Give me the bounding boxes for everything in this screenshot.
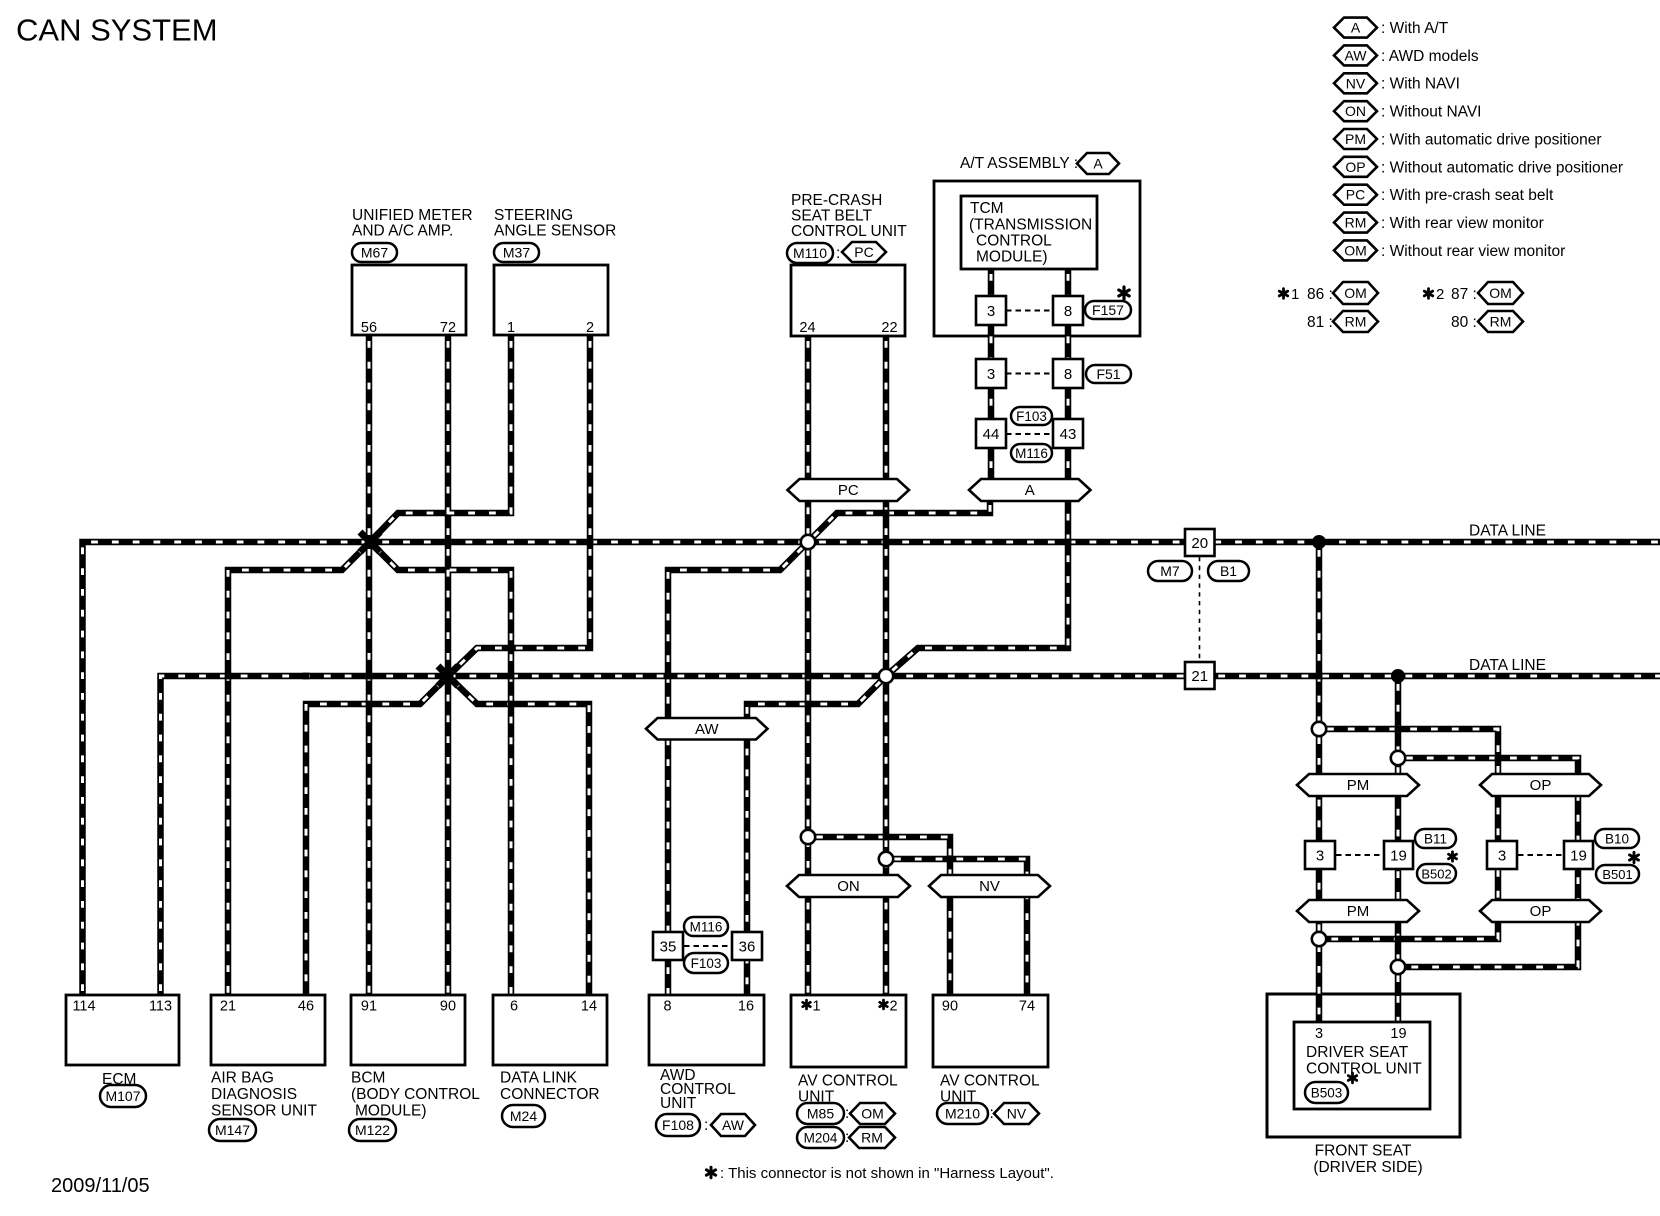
svg-text:BCM: BCM: [351, 1070, 385, 1087]
svg-text::: :: [704, 1117, 708, 1134]
svg-text:OM: OM: [1344, 242, 1367, 258]
svg-text:(BODY CONTROL: (BODY CONTROL: [351, 1086, 480, 1103]
svg-text:MODULE): MODULE): [355, 1103, 426, 1120]
svg-text:81 :: 81 :: [1307, 314, 1333, 331]
svg-text:DRIVER SEAT: DRIVER SEAT: [1306, 1044, 1409, 1061]
svg-text:UNIT: UNIT: [798, 1089, 835, 1106]
svg-text:RM: RM: [1490, 314, 1512, 330]
svg-text:NV: NV: [1007, 1106, 1027, 1122]
svg-text:1: 1: [813, 999, 821, 1015]
svg-text:14: 14: [581, 999, 597, 1015]
svg-text:B503: B503: [1311, 1086, 1343, 1101]
svg-text:DATA LINE: DATA LINE: [1469, 657, 1546, 674]
svg-text:OM: OM: [861, 1106, 884, 1122]
svg-text::: :: [990, 1105, 994, 1122]
svg-text:20: 20: [1191, 535, 1208, 552]
svg-text:2009/11/05: 2009/11/05: [51, 1175, 150, 1197]
svg-text:90: 90: [942, 999, 958, 1015]
svg-text:AW: AW: [695, 721, 719, 738]
svg-text:OM: OM: [1344, 285, 1367, 301]
svg-text:A/T ASSEMBLY :: A/T ASSEMBLY :: [960, 155, 1078, 172]
svg-text:24: 24: [799, 320, 815, 336]
svg-text:PC: PC: [838, 482, 859, 499]
svg-text:80 :: 80 :: [1451, 314, 1477, 331]
svg-text:NV: NV: [1346, 75, 1366, 91]
svg-text:OP: OP: [1345, 159, 1365, 175]
svg-text:B501: B501: [1602, 867, 1632, 882]
svg-text:19: 19: [1570, 847, 1587, 864]
svg-text:OP: OP: [1530, 903, 1552, 920]
svg-text:M122: M122: [355, 1122, 390, 1138]
svg-text:PM: PM: [1345, 131, 1366, 147]
svg-text:CONTROL UNIT: CONTROL UNIT: [791, 223, 907, 240]
svg-text:ECM: ECM: [102, 1071, 136, 1088]
svg-text:1: 1: [1291, 286, 1299, 303]
svg-text:PM: PM: [1347, 777, 1370, 794]
svg-text:21: 21: [220, 999, 236, 1015]
svg-text:3: 3: [987, 303, 995, 320]
svg-text:B11: B11: [1424, 832, 1447, 847]
svg-text:AND A/C AMP.: AND A/C AMP.: [352, 223, 453, 240]
svg-text:2: 2: [586, 320, 594, 336]
svg-text:M7: M7: [1160, 563, 1180, 579]
svg-text:F103: F103: [691, 956, 722, 971]
svg-text:DIAGNOSIS: DIAGNOSIS: [211, 1086, 297, 1103]
svg-text:M204: M204: [804, 1131, 838, 1146]
svg-text:: With pre-crash seat belt: : With pre-crash seat belt: [1381, 187, 1554, 204]
svg-text:114: 114: [72, 999, 95, 1015]
svg-text:: Without rear view monitor: : Without rear view monitor: [1381, 243, 1565, 260]
svg-text:21: 21: [1191, 668, 1208, 685]
svg-text:M37: M37: [503, 245, 530, 261]
svg-text:: With automatic drive positio: : With automatic drive positioner: [1381, 131, 1602, 148]
svg-text:16: 16: [738, 999, 754, 1015]
svg-text:CAN SYSTEM: CAN SYSTEM: [16, 13, 218, 48]
svg-text:19: 19: [1390, 847, 1407, 864]
svg-text::: :: [836, 245, 840, 262]
svg-text:F103: F103: [1016, 409, 1047, 424]
svg-text:2: 2: [890, 999, 898, 1015]
svg-text:A: A: [1025, 482, 1035, 499]
svg-text:AV CONTROL: AV CONTROL: [798, 1073, 898, 1090]
svg-text:B1: B1: [1220, 563, 1237, 579]
svg-text:90: 90: [440, 999, 456, 1015]
svg-text:ON: ON: [1345, 103, 1366, 119]
svg-text:(TRANSMISSION: (TRANSMISSION: [969, 217, 1092, 234]
svg-text:: With A/T: : With A/T: [1381, 20, 1449, 37]
svg-text:F51: F51: [1096, 366, 1120, 382]
svg-text:UNIFIED METER: UNIFIED METER: [352, 207, 473, 224]
svg-text:SENSOR UNIT: SENSOR UNIT: [211, 1103, 317, 1120]
svg-text:B10: B10: [1605, 832, 1629, 847]
svg-text:113: 113: [149, 999, 172, 1015]
svg-text:F157: F157: [1092, 302, 1124, 318]
svg-text:22: 22: [881, 320, 897, 336]
svg-text::: :: [845, 1105, 849, 1122]
svg-text:AW: AW: [1344, 47, 1367, 63]
svg-text:AIR BAG: AIR BAG: [211, 1070, 274, 1087]
svg-text:: Without NAVI: : Without NAVI: [1381, 104, 1482, 121]
svg-text::: :: [845, 1129, 849, 1146]
svg-text:8: 8: [663, 999, 671, 1015]
svg-text:CONTROL UNIT: CONTROL UNIT: [1306, 1061, 1422, 1078]
svg-text:8: 8: [1064, 366, 1072, 383]
svg-text:DATA LINK: DATA LINK: [500, 1070, 578, 1087]
svg-text:3: 3: [1498, 847, 1506, 864]
svg-text:RM: RM: [861, 1130, 883, 1146]
svg-text:35: 35: [660, 938, 677, 955]
svg-text:3: 3: [987, 366, 995, 383]
svg-text:RM: RM: [1345, 314, 1367, 330]
svg-text:8: 8: [1064, 303, 1072, 320]
svg-text:87 :: 87 :: [1451, 286, 1477, 303]
svg-text:19: 19: [1390, 1026, 1406, 1042]
svg-text:72: 72: [440, 320, 456, 336]
svg-text:6: 6: [510, 999, 518, 1015]
svg-text:M85: M85: [807, 1106, 834, 1122]
svg-text:FRONT SEAT: FRONT SEAT: [1315, 1143, 1412, 1160]
svg-text:: Without automatic drive posi: : Without automatic drive positioner: [1381, 159, 1623, 176]
svg-text:UNIT: UNIT: [940, 1089, 977, 1106]
svg-text:PC: PC: [1346, 187, 1365, 203]
svg-text:M67: M67: [361, 245, 388, 261]
svg-text:: With NAVI: : With NAVI: [1381, 76, 1460, 93]
svg-text:43: 43: [1060, 426, 1077, 443]
svg-text:56: 56: [361, 320, 377, 336]
svg-text:UNIT: UNIT: [660, 1095, 697, 1112]
svg-text:M110: M110: [793, 245, 827, 261]
svg-text:F108: F108: [662, 1117, 694, 1133]
svg-text:2: 2: [1436, 286, 1444, 303]
svg-text:A: A: [1093, 156, 1103, 172]
svg-text:ON: ON: [837, 878, 860, 895]
svg-text:PRE-CRASH: PRE-CRASH: [791, 192, 882, 209]
svg-text:3: 3: [1315, 1026, 1323, 1042]
svg-text:: AWD models: : AWD models: [1381, 48, 1479, 65]
svg-text:46: 46: [298, 999, 314, 1015]
svg-text:: This connector is not shown: : This connector is not shown in "Harnes…: [720, 1165, 1054, 1182]
svg-text:PC: PC: [854, 244, 873, 260]
svg-text:CONTROL: CONTROL: [976, 233, 1052, 250]
svg-text:TCM: TCM: [970, 200, 1004, 217]
svg-text:44: 44: [983, 426, 1000, 443]
svg-text:B502: B502: [1421, 867, 1451, 882]
svg-text:ANGLE SENSOR: ANGLE SENSOR: [494, 223, 616, 240]
svg-text:M210: M210: [945, 1106, 980, 1122]
svg-text:1: 1: [507, 320, 515, 336]
svg-text:PM: PM: [1347, 903, 1370, 920]
svg-text:SEAT BELT: SEAT BELT: [791, 208, 873, 225]
svg-text:3: 3: [1316, 847, 1324, 864]
svg-text:DATA LINE: DATA LINE: [1469, 523, 1546, 540]
svg-text:86 :: 86 :: [1307, 286, 1333, 303]
svg-text:STEERING: STEERING: [494, 207, 573, 224]
svg-text:MODULE): MODULE): [976, 249, 1047, 266]
svg-text:M24: M24: [510, 1108, 537, 1124]
svg-text:NV: NV: [979, 878, 1000, 895]
svg-text:OP: OP: [1530, 777, 1552, 794]
svg-text:91: 91: [361, 999, 377, 1015]
svg-text:M107: M107: [105, 1088, 140, 1104]
svg-text:M116: M116: [1015, 446, 1048, 461]
svg-text:(DRIVER SIDE): (DRIVER SIDE): [1313, 1159, 1422, 1176]
svg-text:74: 74: [1019, 999, 1035, 1015]
svg-text:OM: OM: [1489, 285, 1512, 301]
svg-text:AW: AW: [722, 1117, 745, 1133]
svg-text:A: A: [1351, 20, 1361, 36]
svg-text:36: 36: [739, 938, 756, 955]
svg-text:: With rear view monitor: : With rear view monitor: [1381, 215, 1544, 232]
svg-text:M116: M116: [690, 920, 723, 935]
svg-text:AV CONTROL: AV CONTROL: [940, 1073, 1040, 1090]
svg-text:CONNECTOR: CONNECTOR: [500, 1086, 600, 1103]
svg-text:RM: RM: [1345, 215, 1367, 231]
svg-text:M147: M147: [215, 1122, 250, 1138]
